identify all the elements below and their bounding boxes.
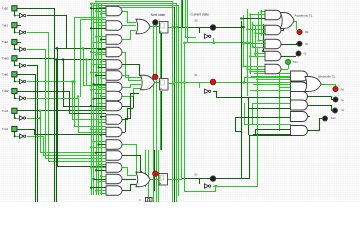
svg-text:TxM0: TxM0 xyxy=(2,57,9,61)
svg-text:S2: S2 xyxy=(194,172,198,176)
svg-text:Next state: Next state xyxy=(151,13,166,17)
svg-text:TxU1: TxU1 xyxy=(2,127,9,131)
svg-text:TxE2: TxE2 xyxy=(2,40,9,44)
svg-text:Gr: Gr xyxy=(304,52,307,56)
svg-text:TxM1: TxM1 xyxy=(2,73,9,77)
svg-text:TxE0: TxE0 xyxy=(2,7,9,11)
svg-text:Rd: Rd xyxy=(341,88,345,92)
svg-text:TxM2: TxM2 xyxy=(2,89,9,93)
svg-text:S0: S0 xyxy=(194,19,198,23)
svg-text:TxE1: TxE1 xyxy=(2,23,9,27)
svg-text:Birdsville TL: Birdsville TL xyxy=(319,75,336,79)
svg-text:Rd: Rd xyxy=(305,30,309,34)
svg-text:Gr: Gr xyxy=(342,108,345,112)
svg-text:Academic TL: Academic TL xyxy=(295,14,313,18)
svg-text:Turn: Turn xyxy=(293,60,299,64)
svg-text:Turn: Turn xyxy=(331,116,337,120)
svg-text:TxU0: TxU0 xyxy=(2,109,9,113)
svg-text:S1: S1 xyxy=(194,73,198,77)
svg-text:Current state: Current state xyxy=(191,13,210,17)
